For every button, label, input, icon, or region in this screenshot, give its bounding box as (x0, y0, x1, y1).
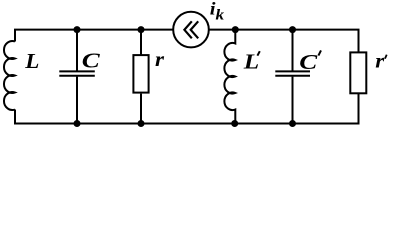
wire top-left segment (15, 30, 173, 42)
svg-text:L: L (243, 50, 259, 74)
capacitor C (59, 30, 95, 124)
prime of C' (318, 50, 321, 55)
svg-text:C: C (82, 49, 101, 73)
prime of r' (385, 55, 387, 59)
inductor L (4, 41, 15, 110)
node top C' (289, 26, 296, 33)
node bottom C (74, 120, 81, 127)
current source i_k (173, 12, 209, 48)
node bottom L' (231, 120, 238, 127)
resistor r' (350, 52, 366, 93)
svg-text:r: r (155, 47, 164, 71)
wire top-right segment (209, 30, 359, 52)
node top L' (232, 26, 239, 33)
svg-text:ik: ik (210, 0, 224, 23)
node bottom C' (289, 120, 296, 127)
capacitor C' (275, 30, 310, 124)
node top r (138, 26, 145, 33)
node top C (74, 26, 81, 33)
prime of L' (257, 51, 259, 56)
svg-text:r: r (375, 48, 384, 72)
wire bottom (15, 94, 359, 124)
resistor r (133, 30, 148, 124)
svg-text:L: L (24, 49, 39, 73)
inductor L' (224, 30, 235, 124)
node bottom r (138, 120, 145, 127)
svg-text:C: C (299, 50, 318, 74)
